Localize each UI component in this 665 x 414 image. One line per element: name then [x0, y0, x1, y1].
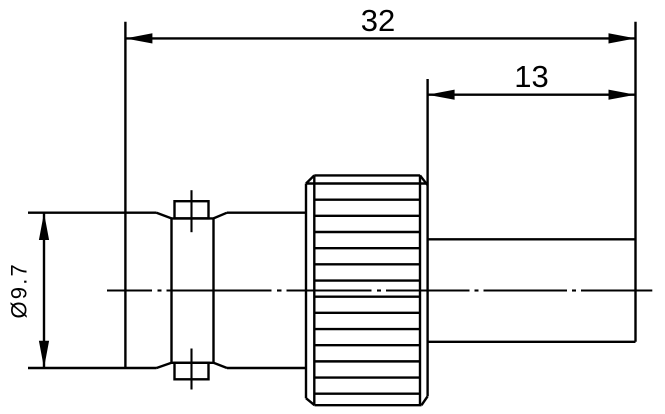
- rear body top edge: [428, 238, 636, 240]
- knurl lines: [306, 184, 428, 394]
- stud bottom centerline: [190, 349, 192, 390]
- groove edge left: [170, 218, 172, 362]
- bayonet stud top: [175, 201, 209, 218]
- main axis centerline: [107, 289, 652, 291]
- svg-text:32: 32: [361, 3, 395, 38]
- knurl outer left edge: [305, 184, 307, 399]
- dim 32 arrow right: [609, 33, 636, 43]
- knurl inner left edge: [313, 175, 315, 405]
- knurl bottom edge: [315, 404, 422, 406]
- mid body bottom edge: [227, 367, 306, 369]
- knurl top edge: [314, 174, 420, 176]
- mid body top edge: [227, 211, 306, 213]
- dim dia9.7 line: [43, 213, 45, 368]
- groove surface top: [172, 217, 214, 219]
- knurl top-right chamfer: [420, 175, 428, 185]
- dim 32 arrow left: [125, 33, 152, 43]
- dim dia9.7 arrow top: [39, 213, 49, 240]
- knurl bottom-left chamfer: [306, 398, 315, 405]
- dim 13 line: [428, 93, 636, 95]
- groove edge right: [212, 218, 214, 362]
- groove surface bottom: [172, 362, 214, 364]
- dim 32 extension line left / nut left face: [124, 22, 126, 368]
- dim dia9.7 arrow bottom: [39, 341, 49, 368]
- dim 13 arrow left: [428, 90, 455, 100]
- nut bottom edge + dia9.7 bottom extension: [28, 367, 157, 369]
- nut bottom chamfer right: [214, 363, 228, 368]
- knurl bottom-right chamfer: [422, 396, 428, 405]
- rear body bottom edge: [428, 341, 636, 343]
- dim 32/13 extension line right / body right face: [634, 22, 636, 342]
- knurl top-left chamfer: [306, 175, 314, 183]
- bayonet stud bottom: [175, 363, 209, 380]
- nut top chamfer left: [157, 213, 172, 219]
- nut top chamfer right: [214, 213, 228, 219]
- dim 13 arrow right: [609, 90, 636, 100]
- svg-text:Ø9.7: Ø9.7: [6, 262, 31, 319]
- dim 32 line: [125, 37, 635, 39]
- nut top edge + dia9.7 top extension: [28, 211, 157, 213]
- nut bottom chamfer left: [157, 363, 172, 368]
- dim 13 extension line left / knurl right edge: [426, 79, 428, 396]
- svg-text:13: 13: [514, 59, 548, 94]
- stud top centerline: [190, 190, 192, 232]
- knurl inner right edge: [419, 175, 421, 405]
